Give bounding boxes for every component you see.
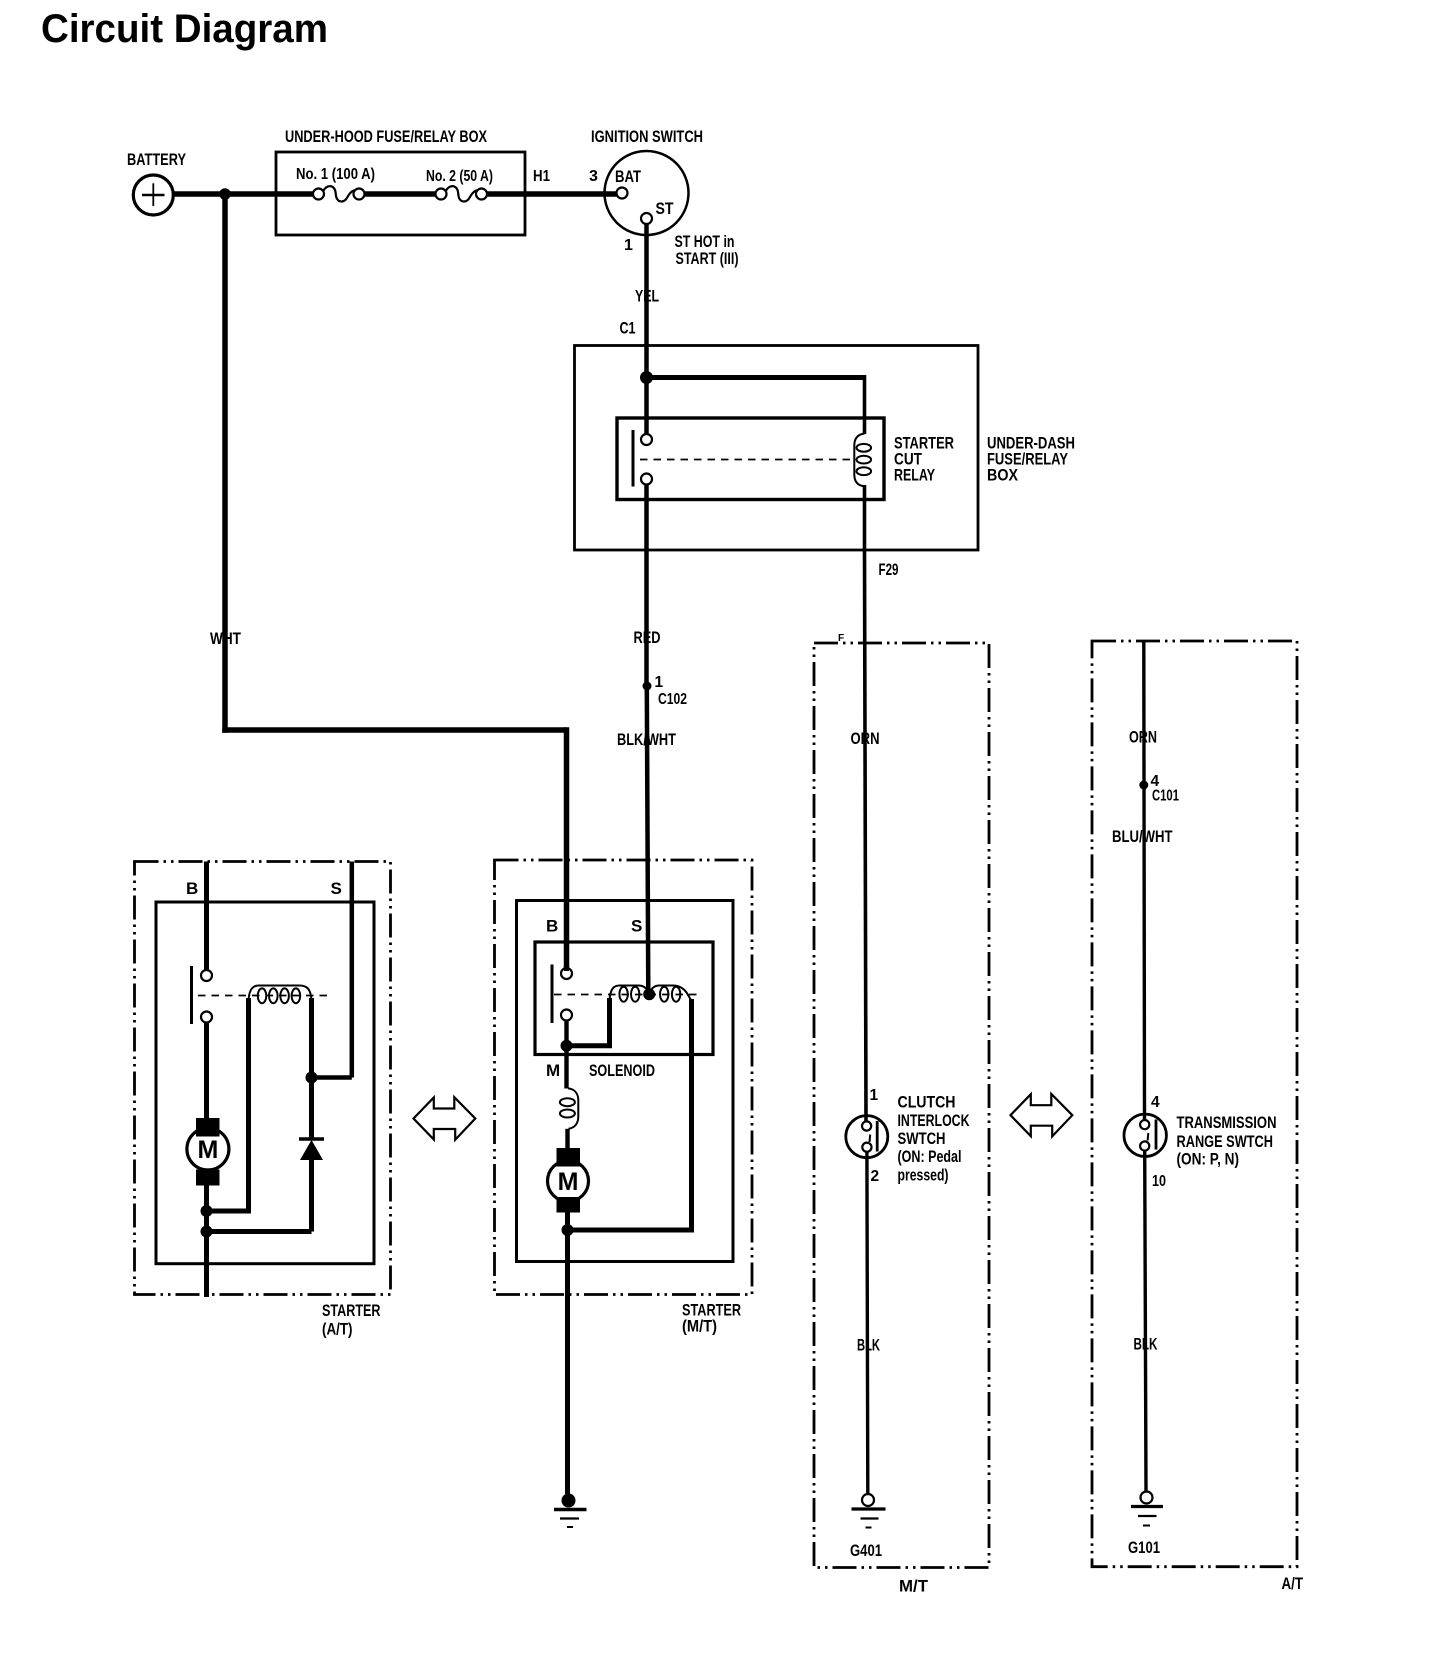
svg-text:BLK: BLK <box>857 1336 880 1355</box>
svg-text:M: M <box>197 1136 218 1164</box>
svg-text:(ON: P, N): (ON: P, N) <box>1177 1150 1240 1169</box>
svg-text:BLU/WHT: BLU/WHT <box>1112 827 1173 846</box>
svg-text:ORN: ORN <box>851 729 880 748</box>
svg-text:BLK/WHT: BLK/WHT <box>617 730 676 749</box>
svg-text:B: B <box>186 879 198 898</box>
svg-text:B: B <box>546 917 558 936</box>
svg-text:STARTER: STARTER <box>322 1301 381 1320</box>
svg-text:BATTERY: BATTERY <box>127 150 186 169</box>
svg-text:G401: G401 <box>850 1541 882 1560</box>
svg-text:YEL: YEL <box>635 287 659 306</box>
svg-text:S: S <box>631 917 642 936</box>
svg-text:M: M <box>558 1168 579 1196</box>
svg-text:4: 4 <box>1151 1094 1160 1111</box>
svg-text:1: 1 <box>624 237 633 254</box>
svg-text:ST: ST <box>656 199 675 218</box>
svg-text:TRANSMISSION: TRANSMISSION <box>1177 1113 1277 1132</box>
svg-text:UNDER-HOOD FUSE/RELAY BOX: UNDER-HOOD FUSE/RELAY BOX <box>285 127 487 146</box>
svg-text:BOX: BOX <box>987 466 1019 485</box>
svg-text:M: M <box>546 1061 560 1080</box>
svg-text:10: 10 <box>1152 1173 1166 1190</box>
svg-text:M/T: M/T <box>899 1577 929 1596</box>
svg-text:RED: RED <box>634 628 661 647</box>
svg-text:CLUTCH: CLUTCH <box>898 1093 956 1112</box>
svg-text:No. 2 (50 A): No. 2 (50 A) <box>426 168 493 185</box>
svg-text:F29: F29 <box>879 560 899 579</box>
svg-text:1: 1 <box>870 1087 879 1104</box>
svg-text:BLK: BLK <box>1134 1335 1158 1354</box>
svg-text:2: 2 <box>871 1168 880 1185</box>
svg-text:INTERLOCK: INTERLOCK <box>898 1111 971 1130</box>
svg-text:G101: G101 <box>1128 1538 1160 1557</box>
svg-text:ORN: ORN <box>1129 728 1157 747</box>
svg-text:SOLENOID: SOLENOID <box>589 1061 655 1080</box>
svg-text:No. 1 (100 A): No. 1 (100 A) <box>296 166 375 183</box>
svg-text:1: 1 <box>655 674 664 691</box>
svg-text:C1: C1 <box>620 319 636 338</box>
svg-text:F: F <box>838 633 844 644</box>
svg-text:C101: C101 <box>1152 788 1179 805</box>
svg-text:(ON: Pedal: (ON: Pedal <box>898 1147 962 1166</box>
svg-text:START (III): START (III) <box>676 249 739 268</box>
svg-text:(M/T): (M/T) <box>682 1317 717 1336</box>
svg-text:WHT: WHT <box>210 629 241 648</box>
svg-text:C102: C102 <box>658 691 687 708</box>
svg-text:BAT: BAT <box>615 167 641 186</box>
svg-text:A/T: A/T <box>1282 1574 1304 1593</box>
svg-text:RELAY: RELAY <box>894 466 935 485</box>
svg-text:pressed): pressed) <box>898 1166 949 1185</box>
svg-text:RANGE SWTCH: RANGE SWTCH <box>1177 1132 1274 1151</box>
svg-text:S: S <box>331 879 342 898</box>
svg-text:H1: H1 <box>533 168 550 185</box>
svg-text:(A/T): (A/T) <box>322 1320 353 1339</box>
svg-text:SWTCH: SWTCH <box>898 1129 946 1148</box>
svg-text:Circuit Diagram: Circuit Diagram <box>41 7 328 51</box>
svg-text:IGNITION SWITCH: IGNITION SWITCH <box>591 127 703 146</box>
svg-text:3: 3 <box>589 168 598 185</box>
